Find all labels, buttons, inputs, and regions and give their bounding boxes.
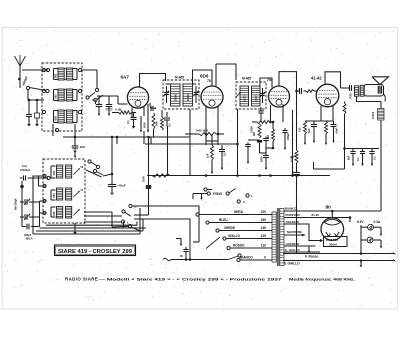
resistor R1 0.1M	[112, 112, 119, 114]
field coil L5	[378, 109, 385, 121]
svg-text:VERDE: VERDE	[224, 226, 235, 230]
svg-text:ARANCIO: ARANCIO	[286, 242, 300, 246]
wire 41-42 cathode	[320, 106, 322, 121]
resistor R12 inline	[152, 174, 170, 177]
switch mains	[228, 256, 238, 260]
oscillator trimmer 2	[73, 191, 79, 197]
capacitor C20	[362, 149, 364, 152]
wire 75 plate up	[279, 72, 297, 86]
capacitor C22 8uF	[74, 137, 76, 146]
speaker voice coil	[377, 86, 379, 94]
ground arrow bus left	[74, 151, 76, 158]
output transformer T3 primary	[355, 86, 359, 96]
capacitor C24 mica	[146, 185, 151, 189]
AC plug symbol	[163, 258, 171, 261]
svg-text:O50: O50	[55, 94, 58, 99]
wire bottom bus 4	[46, 224, 137, 226]
svg-text:125: 125	[261, 234, 267, 238]
wire G.GIALLO rect filament	[284, 251, 320, 253]
coil L1a	[58, 68, 64, 80]
svg-text:BIANCO: BIANCO	[240, 256, 253, 260]
svg-text:0.1: 0.1	[126, 120, 130, 124]
tube V4 41-42	[316, 84, 339, 107]
terminal h	[237, 200, 240, 203]
power transformer T4 core	[276, 208, 278, 266]
resistor R5	[211, 145, 214, 160]
svg-text:50pF: 50pF	[150, 106, 156, 110]
capacitor C18 coupling	[349, 85, 351, 91]
wire gang top	[97, 95, 118, 97]
resistor R4 on AVC bus	[185, 133, 199, 135]
svg-text:G. GIALLO: G. GIALLO	[285, 248, 301, 252]
svg-text:0: 0	[264, 256, 266, 260]
coil L2a	[58, 89, 64, 101]
svg-text:0.1: 0.1	[168, 123, 172, 127]
svg-text:SIARE 419 - CROSLEY 299: SIARE 419 - CROSLEY 299	[58, 249, 132, 255]
coil L3a	[58, 110, 64, 123]
wire lamp LP2 right	[373, 239, 381, 241]
wire 41-42 plate to output transformer	[341, 87, 350, 89]
wire tap risers	[198, 215, 200, 243]
svg-text:1uF: 1uF	[206, 153, 210, 158]
wire 6D6 cathode	[205, 107, 207, 116]
wire 6D6 plate to IF2	[216, 64, 236, 80]
wire 6A7 cathode leads	[131, 108, 133, 118]
terminal T3	[95, 88, 98, 91]
IF transformer T2 shield box	[236, 82, 266, 109]
svg-text:2000: 2000	[142, 176, 146, 182]
wire B plus row	[344, 102, 346, 104]
wire G.GIALLO heaters 2	[283, 260, 395, 262]
terminal A2	[26, 86, 29, 89]
svg-text:M-465: M-465	[242, 77, 251, 81]
resistor R7 2M	[258, 124, 261, 138]
capacitor C15 grid	[299, 88, 301, 94]
resistor R14 grid stopper	[306, 90, 314, 93]
svg-text:8uF: 8uF	[347, 155, 351, 160]
svg-text:10000: 10000	[256, 95, 258, 102]
speaker body	[364, 85, 384, 97]
IF1 secondary winding	[183, 84, 193, 106]
oscillator coil L8a	[57, 207, 63, 219]
wire S3 to mains	[132, 227, 140, 231]
wire switch to grid	[95, 102, 97, 105]
svg-text:10000: 10000	[245, 95, 247, 102]
ground arrow into box2	[74, 131, 76, 146]
wire bottom bus 3	[40, 227, 147, 229]
speaker cone	[372, 77, 389, 85]
oscillator trimmer 3	[73, 209, 79, 215]
wire speaker to field	[384, 94, 386, 102]
variable capacitor CV1	[98, 96, 100, 104]
wire osc to bus	[111, 137, 113, 184]
wire box2 internal	[51, 165, 56, 167]
terminal box2 left 2	[43, 184, 46, 187]
wire AVC bus	[63, 136, 190, 138]
capacitor C-ant	[28, 100, 30, 114]
svg-text:0.25M: 0.25M	[251, 126, 254, 133]
oscillator trimmer 1	[73, 168, 79, 174]
terminal box2 left 3	[43, 199, 46, 202]
wire field coil vertical	[380, 102, 382, 109]
wire box1 bottom leads	[52, 124, 54, 136]
IF1 primary winding	[171, 84, 181, 106]
terminal box2 left 4	[43, 211, 46, 214]
terminal box1 left 2	[42, 89, 45, 92]
wire left pad bus	[28, 99, 44, 101]
wire bottom bus 1	[33, 233, 140, 235]
switch S2a	[88, 160, 91, 163]
variable capacitor CV2	[108, 96, 110, 104]
resistor R10 bias	[304, 121, 307, 134]
svg-text:5000: 5000	[261, 156, 264, 162]
capacitor C23 2000pF	[148, 171, 150, 185]
rectifier socket box	[324, 237, 348, 247]
IF transformer T1 shield box	[163, 80, 199, 109]
svg-text:10x1 500: 10x1 500	[326, 238, 339, 242]
wire IF2 to 75 grid	[260, 78, 272, 88]
resistor R6 diode load	[252, 121, 257, 123]
node antenna junction	[18, 78, 21, 81]
ground heater bus	[360, 259, 363, 262]
switch arm S1b	[86, 96, 89, 99]
wire coil unit 3	[54, 110, 59, 112]
svg-text:220: 220	[261, 210, 267, 214]
oscillator coil L8b	[66, 207, 72, 219]
svg-text:L: L	[127, 221, 129, 225]
tube V2 6D6	[201, 86, 223, 108]
svg-text:5000: 5000	[143, 122, 147, 128]
svg-text:Fu4: Fu4	[22, 164, 27, 168]
capacitor C21	[371, 149, 373, 152]
svg-text:10000: 10000	[371, 111, 375, 119]
svg-text:450-360pF: 450-360pF	[15, 198, 18, 210]
wire ARANCIO 1	[284, 224, 320, 241]
label box SIARE 419 - CROSLEY 299	[55, 245, 136, 256]
wire antenna to coil box	[22, 69, 48, 71]
wire S3 diag	[86, 170, 102, 177]
svg-text:0.1M: 0.1M	[115, 108, 122, 112]
wire 41-42 k bus	[305, 120, 334, 122]
wire ground bus	[147, 175, 330, 177]
svg-text:L: L	[251, 194, 253, 198]
wire AC line	[171, 259, 228, 261]
wire band switch long leads	[33, 176, 47, 234]
wire output to B+	[357, 97, 382, 102]
svg-text:30200: 30200	[187, 94, 190, 101]
resistor R11	[325, 121, 328, 134]
capacitor C19	[352, 149, 354, 152]
svg-text:80: 80	[326, 205, 332, 211]
wire screen bus	[145, 143, 238, 145]
svg-text:380pF: 380pF	[24, 233, 32, 237]
terminal box1 right 2	[78, 89, 81, 92]
switch S3 arm	[125, 212, 131, 216]
switch arm S1a	[30, 88, 47, 91]
tube V3 75	[269, 86, 290, 107]
terminal box1 left 3	[42, 110, 45, 113]
svg-text:+8uF: +8uF	[335, 127, 339, 134]
svg-text:420: 420	[298, 127, 302, 132]
wire mains lead	[143, 219, 190, 260]
wire AVC to switch	[116, 137, 118, 144]
resistor R2	[152, 113, 155, 129]
tube V1 6A7	[127, 87, 148, 108]
lamp LP1	[368, 224, 374, 230]
svg-text:MICA: MICA	[26, 237, 33, 241]
svg-text:0.5M: 0.5M	[290, 155, 294, 162]
svg-text:0.1: 0.1	[92, 98, 96, 102]
capacitor C14 coupling	[293, 172, 300, 174]
oscillator coil L7b	[66, 188, 72, 200]
svg-text:BIANCO: BIANCO	[285, 207, 297, 211]
tube V5 80 rectifier	[321, 218, 344, 241]
wire 6A7 grid	[118, 103, 128, 105]
IF1 trimmer 2	[195, 86, 197, 92]
power transformer T4 secondary winding	[280, 209, 284, 266]
capacitor C30 line	[180, 240, 182, 246]
svg-text:+40uF: +40uF	[117, 184, 126, 188]
resistor R8 2M	[272, 129, 275, 141]
svg-text:Media frequenza: 468 KHz.: Media frequenza: 468 KHz.	[289, 276, 355, 281]
wire bus verticals	[143, 131, 145, 144]
potentiometer R9 0.5M volume	[295, 150, 298, 163]
svg-text:10000pF: 10000pF	[20, 168, 31, 172]
phono jack	[204, 188, 207, 191]
output transformer T3 secondary	[360, 85, 364, 96]
capacitor C5 50pF	[149, 103, 151, 107]
trimmer C28	[20, 216, 24, 218]
wire grid 41-42	[297, 90, 300, 92]
oscillator coil L7a	[57, 188, 63, 200]
svg-text:160: 160	[261, 218, 267, 222]
wire tap BIANCO 0	[240, 259, 272, 261]
capacitor C-pad 10	[36, 100, 38, 113]
svg-text:B50: B50	[55, 115, 58, 120]
ground dot	[21, 181, 23, 185]
wire 75 heater down	[292, 110, 294, 176]
arm volume	[292, 155, 296, 158]
wire IF1 to 6D6 grid	[193, 70, 213, 86]
svg-text:30200: 30200	[175, 94, 178, 101]
svg-text:6. GIALLO: 6. GIALLO	[284, 262, 300, 266]
svg-text:6. Rosso: 6. Rosso	[305, 255, 318, 259]
capacitor C11	[247, 143, 249, 145]
oscillator coil L6a	[57, 165, 63, 178]
svg-text:0.1: 0.1	[223, 152, 227, 156]
svg-text:B52: B52	[55, 73, 58, 78]
terminal box1 bottom	[55, 128, 58, 131]
svg-text:100pF: 100pF	[287, 133, 290, 140]
tick bus ends	[393, 253, 396, 255]
lamp LP2	[367, 237, 373, 243]
wire tap ROSSO 110	[230, 247, 272, 249]
capacitor C31	[185, 252, 187, 255]
svg-text:50K: 50K	[155, 121, 159, 126]
svg-text:MARRONE: MARRONE	[287, 230, 302, 234]
resistor R15 B plus feed	[343, 103, 346, 114]
switch FONO	[207, 192, 210, 195]
wire 6D6 down	[205, 116, 207, 145]
wire rectifier plate lead	[344, 217, 351, 219]
svg-text:110: 110	[261, 244, 266, 248]
svg-text:0.3A: 0.3A	[374, 220, 381, 224]
wire fono left	[193, 193, 207, 195]
wire 41-42 plate top	[325, 72, 341, 88]
coil L1b	[67, 68, 73, 80]
wire volume line	[296, 84, 298, 150]
arrow center tap ground	[308, 246, 310, 252]
wire B plus corner	[314, 168, 345, 170]
svg-text:8uF: 8uF	[307, 128, 311, 133]
ground arrow 6A7 k1	[140, 116, 142, 132]
wire box1 top to tuning cap	[82, 70, 97, 88]
shield box oscillator coils	[43, 159, 85, 223]
svg-text:81-26: 81-26	[312, 213, 320, 217]
arrow phono ground	[201, 193, 203, 196]
wire tap VERDE 140	[219, 230, 272, 232]
svg-text:41-42: 41-42	[311, 76, 322, 81]
ground arrow 6A7 k2	[147, 117, 149, 132]
gang hatch CV2	[106, 109, 113, 111]
wire lamp LP1 right	[373, 226, 381, 228]
terminal box1 left 1	[42, 68, 45, 71]
oscillator coil L6b	[66, 165, 72, 178]
capacitor C9 small	[257, 140, 262, 143]
wire lamps left	[361, 226, 368, 228]
svg-text:O48: O48	[53, 211, 56, 216]
wire 75 cathode down	[270, 105, 272, 122]
wire BIANCO B plus	[284, 210, 381, 212]
selector arm mains	[206, 237, 220, 249]
svg-text:ARANCIO: ARANCIO	[286, 220, 300, 224]
switch arm S1c	[94, 98, 97, 101]
wire coil unit 1	[54, 68, 59, 70]
switch S2b	[93, 169, 96, 172]
wire G.ROSSO heaters 1	[283, 253, 395, 255]
wire IF1 links	[166, 83, 171, 85]
svg-text:7000: 7000	[349, 93, 353, 99]
capacitor C17	[333, 121, 335, 124]
svg-text:6A7: 6A7	[121, 75, 130, 80]
switch S3 contacts	[129, 204, 132, 207]
IF1 trimmer 1	[166, 86, 168, 92]
wire MARRONE center tap	[284, 234, 303, 236]
svg-text:6.3V: 6.3V	[357, 220, 364, 224]
svg-text:h: h	[243, 200, 245, 204]
wire tap GIALLO 125	[226, 238, 272, 240]
svg-text:RADIO SIARE: RADIO SIARE	[65, 276, 98, 281]
wire PORPORA HV 1	[284, 218, 350, 223]
IF2 trimmer 1	[235, 92, 240, 97]
svg-text:O52: O52	[53, 170, 56, 175]
svg-text:0.1: 0.1	[373, 156, 377, 160]
svg-text:140: 140	[261, 226, 267, 230]
capacitor C16	[313, 121, 315, 124]
terminal L	[246, 194, 249, 197]
resistor R3	[161, 117, 164, 130]
svg-text:BLEU: BLEU	[219, 218, 228, 222]
svg-text:PORPORA: PORPORA	[286, 213, 302, 217]
coil L3b	[67, 110, 73, 123]
svg-text:5000: 5000	[196, 129, 202, 133]
terminal pad	[47, 176, 50, 179]
terminal box1 right 1	[78, 68, 81, 71]
wire box2 ground lead	[74, 223, 76, 228]
svg-text:O50: O50	[53, 193, 56, 198]
IF2 secondary winding	[252, 86, 261, 106]
capacitor C6	[166, 112, 168, 117]
wire switch S3 wiring	[84, 211, 112, 213]
capacitor C29 380pF	[22, 226, 26, 228]
wire to fono	[134, 218, 143, 220]
capacitor C13	[265, 153, 267, 155]
capacitor C7	[221, 145, 223, 149]
shield box aerial coils	[42, 63, 82, 131]
IF2 primary winding	[240, 86, 249, 106]
svg-text:— Modelli « Siare 419 » - « Cr: — Modelli « Siare 419 » - « Crosley 299 …	[99, 276, 283, 281]
IF2 trimmer 2	[262, 88, 264, 93]
terminal box1 right 3	[78, 110, 81, 113]
svg-text:50mA: 50mA	[329, 243, 338, 247]
resistor R13 AVC filter	[148, 137, 150, 171]
svg-text:NERA: NERA	[234, 210, 244, 214]
capacitor C4	[133, 113, 135, 118]
wire rectifier output	[331, 211, 333, 218]
capacitor C10	[284, 128, 286, 130]
capacitor C25 40uF	[108, 184, 116, 186]
svg-text:0.1: 0.1	[356, 157, 360, 161]
capacitor C12	[265, 137, 267, 139]
terminal A1	[46, 68, 49, 71]
wire coil unit 2	[54, 89, 59, 91]
wire trimmer column	[21, 202, 23, 227]
wire switch riser 1	[139, 208, 141, 234]
wire tap BLEU 160	[209, 222, 272, 224]
wire det links	[260, 152, 267, 154]
svg-text:ROSSO: ROSSO	[233, 244, 245, 248]
terminal box2 left 1	[43, 174, 46, 177]
svg-text:6D6: 6D6	[200, 74, 209, 79]
svg-text:GIALLO: GIALLO	[228, 234, 241, 238]
wire 6A7 plate to IF1	[140, 74, 166, 88]
wire ARANCIO 2	[284, 245, 316, 247]
power transformer T4 primary winding	[272, 212, 276, 262]
coil L2b	[67, 89, 73, 101]
wire bottom bus 2	[36, 230, 143, 232]
svg-text:M-465: M-465	[175, 76, 184, 80]
svg-text:8uF: 8uF	[80, 145, 86, 149]
capacitor C8	[260, 107, 262, 111]
wire switch link	[134, 214, 149, 216]
antenna	[15, 56, 21, 66]
wire tap NERA 220	[199, 214, 272, 216]
svg-text:FONO: FONO	[213, 192, 223, 196]
svg-text:78: 78	[207, 79, 211, 83]
